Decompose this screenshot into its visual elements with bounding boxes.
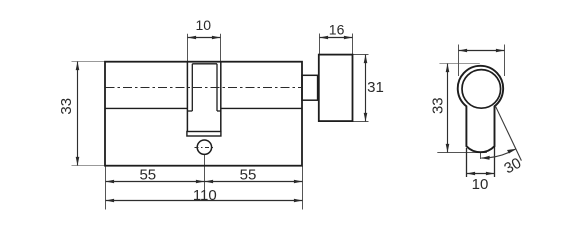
svg-text:55: 55 [139,166,156,183]
svg-text:55: 55 [240,167,257,184]
svg-text:10: 10 [472,176,489,193]
svg-text:33: 33 [58,98,75,115]
svg-text:31: 31 [367,79,384,96]
svg-text:10: 10 [196,17,212,33]
svg-text:110: 110 [193,187,217,204]
svg-text:33: 33 [429,97,446,114]
svg-text:16: 16 [329,22,345,38]
